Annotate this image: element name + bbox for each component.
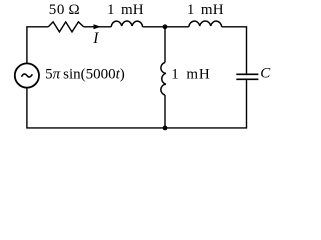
inductor L2 1 mH (top right) xyxy=(189,21,222,27)
node B junction dot (bottom) xyxy=(163,126,168,131)
wire: bottom junction to bottom-left corner up to source xyxy=(27,88,165,128)
wire: capacitor to bottom-right corner to bottom junction xyxy=(165,79,247,128)
wire: top-left corner from source up and right to resistor xyxy=(27,27,48,64)
wire: L2 to top-right corner down to capacitor xyxy=(222,27,247,75)
wire: resistor to inductor L1 xyxy=(84,26,112,28)
svg-text:C: C xyxy=(260,66,271,82)
svg-text:1 mH: 1 mH xyxy=(107,2,144,18)
svg-text:1 mH: 1 mH xyxy=(187,2,224,18)
inductor L1 1 mH (top middle) xyxy=(111,21,142,27)
svg-text:I: I xyxy=(92,30,99,47)
svg-text:5π sin(5000t): 5π sin(5000t) xyxy=(45,66,125,82)
wire: L3 down to bottom junction xyxy=(164,95,166,128)
sine symbol inside source xyxy=(22,74,33,77)
wire: L1 to node A xyxy=(143,26,165,28)
svg-text:1 mH: 1 mH xyxy=(171,67,210,83)
wire: middle branch from node A down to inductor L3 xyxy=(164,27,166,63)
svg-text:50 Ω: 50 Ω xyxy=(49,2,81,18)
node A junction dot (top) xyxy=(163,24,168,29)
current arrow I xyxy=(94,24,102,29)
resistor 50 Ohm xyxy=(48,22,83,32)
capacitor C top plate xyxy=(236,73,258,75)
wire: node A to inductor L2 (top right) xyxy=(165,26,189,28)
inductor L3 1 mH (middle vertical) xyxy=(161,63,166,96)
capacitor C bottom plate xyxy=(236,78,258,80)
ac source 5π sin(5000t) xyxy=(15,63,39,87)
